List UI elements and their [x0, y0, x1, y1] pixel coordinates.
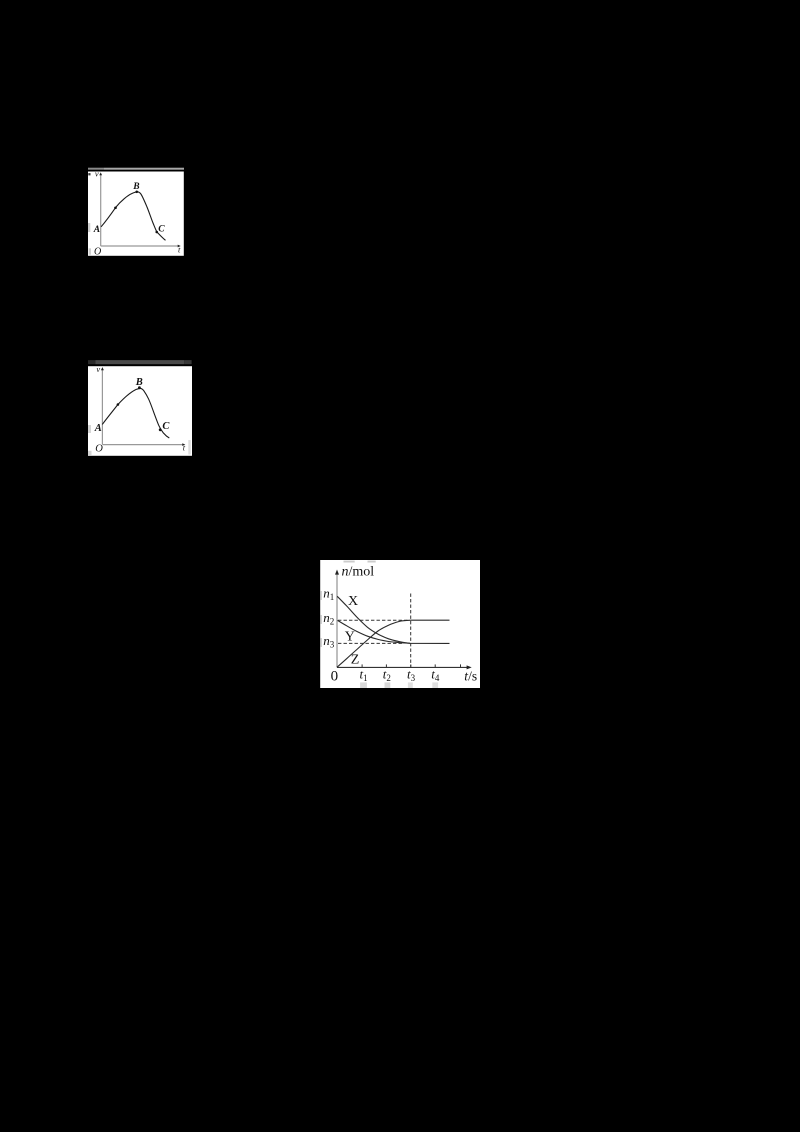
svg-text:B: B — [135, 377, 143, 388]
svg-text:O: O — [94, 246, 101, 257]
svg-text:X: X — [348, 594, 358, 609]
svg-text:C: C — [162, 421, 170, 432]
svg-text:A: A — [94, 423, 102, 434]
svg-text:t/s: t/s — [464, 668, 477, 683]
svg-text:Z: Z — [351, 653, 360, 668]
svg-text:C: C — [158, 224, 165, 234]
svg-text:O: O — [95, 443, 103, 454]
svg-text:B: B — [132, 182, 139, 192]
svg-text:Y: Y — [345, 630, 355, 645]
svg-text:0: 0 — [331, 669, 339, 685]
svg-text:v: v — [95, 169, 99, 179]
svg-text:n/mol: n/mol — [342, 564, 375, 579]
svg-text:v: v — [96, 364, 100, 374]
svg-text:A: A — [93, 225, 100, 235]
